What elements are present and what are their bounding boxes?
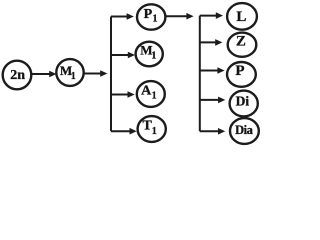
svg-text:L: L — [236, 9, 246, 25]
svg-text:Dia: Dia — [235, 123, 254, 137]
svg-text:1: 1 — [71, 71, 76, 82]
svg-text:1: 1 — [152, 91, 157, 102]
svg-text:A: A — [141, 83, 152, 98]
svg-text:Z: Z — [236, 34, 246, 50]
svg-text:2n: 2n — [10, 68, 25, 83]
svg-text:P: P — [235, 63, 244, 79]
svg-text:Di: Di — [236, 93, 250, 108]
svg-text:1: 1 — [151, 51, 156, 62]
svg-text:1: 1 — [153, 14, 158, 25]
svg-text:1: 1 — [152, 126, 157, 137]
svg-text:P: P — [144, 7, 153, 22]
